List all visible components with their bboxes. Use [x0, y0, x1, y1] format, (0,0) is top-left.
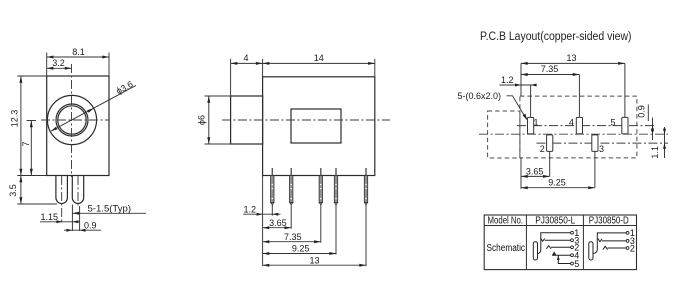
svg-text:13: 13: [566, 53, 576, 63]
schematic L: terminal 5 circle: [571, 262, 574, 265]
schematic D: contact caret mark: [603, 246, 608, 249]
dimension 3.65 (side view) line: [263, 227, 292, 229]
side view horizontal centerline: [222, 119, 390, 121]
side view pin 4: [334, 168, 337, 205]
svg-text:4: 4: [569, 118, 574, 128]
extension line barrel left top: [230, 59, 232, 96]
schematic L: terminal 2 circle: [571, 246, 574, 249]
pin P-left (front view, 1.5 wide tab): [56, 176, 68, 204]
schematic L: sleeve wire to terminal 1: [538, 233, 571, 254]
pad 3: [592, 135, 598, 152]
dimension 13 (PCB) line: [521, 62, 625, 64]
dimension 0.9 underline: [647, 105, 649, 122]
extension line body right top: [374, 59, 376, 77]
dimension 7.35 (PCB) line: [521, 74, 579, 76]
dimension 9.25 (PCB) line: [521, 187, 595, 189]
schematic L: tip triangle: [552, 251, 556, 255]
side view pin 5: [364, 168, 367, 205]
svg-text:2: 2: [630, 243, 635, 253]
dia 3.6 leader line: [51, 85, 136, 131]
jack barrel outer circle: [47, 95, 96, 144]
svg-text:ϕ6: ϕ6: [197, 115, 207, 125]
dimension 0.9 line: [64, 229, 101, 231]
schematic D: sleeve symbol: [589, 242, 593, 260]
svg-text:1: 1: [534, 118, 539, 128]
pin edge extension line C: [79, 206, 81, 231]
pin4 center extension: [335, 205, 337, 255]
side view pin 1: [271, 168, 274, 205]
svg-text:14: 14: [314, 53, 324, 63]
svg-text:12.3: 12.3: [10, 110, 20, 128]
pin P-left centerline: [61, 176, 63, 222]
svg-text:3.65: 3.65: [526, 166, 544, 176]
schematic L: terminal 5 wire: [558, 255, 570, 263]
svg-text:1.1: 1.1: [650, 146, 660, 159]
svg-text:0.9: 0.9: [84, 221, 97, 231]
dimension dia6 line: [208, 96, 210, 144]
svg-text:3.2: 3.2: [52, 58, 65, 68]
svg-text:3.5: 3.5: [8, 184, 18, 197]
pin1 center extension: [271, 205, 273, 216]
PCB lower row centerline: [537, 142, 669, 144]
dimension 0.9 (PCB) line: [652, 118, 654, 141]
schematic L: terminal 2 wire: [551, 246, 571, 248]
svg-text:2: 2: [540, 144, 545, 154]
PCB upper row centerline: [517, 125, 656, 127]
extension line body left top: [262, 59, 264, 77]
schematic D: terminal 3 wire: [602, 240, 626, 242]
svg-text:5: 5: [574, 259, 579, 269]
svg-text:Model No.: Model No.: [488, 216, 524, 227]
pad5 extension up: [624, 63, 626, 117]
schematic L: terminal 5 arrow: [557, 256, 560, 260]
extension line barrel bottom: [205, 143, 231, 145]
svg-text:5-(0.6x2.0): 5-(0.6x2.0): [458, 91, 502, 101]
dimension 7 top tick: [27, 120, 37, 122]
dimension 1.15 line: [40, 221, 80, 223]
dimension 1.2 (PCB) line: [500, 84, 537, 86]
extension line at body top left: [17, 75, 46, 77]
schematic D: terminal 2 circle: [626, 247, 629, 250]
horizontal centerline of front view: [41, 119, 109, 121]
svg-text:9.25: 9.25: [292, 244, 310, 254]
label 5-(0.6x2.0) leader: [507, 96, 527, 119]
pin P-right (front view): [72, 176, 83, 204]
front view body outline: [47, 76, 109, 176]
dimension 1.1 (PCB) line: [664, 127, 666, 158]
pad1 extension up: [530, 85, 532, 117]
side view inner rectangle: [291, 109, 341, 143]
schematic D: sleeve wire to terminal 1: [593, 233, 626, 254]
extension line left of 8.1: [46, 53, 48, 77]
extension line at pin bottom: [17, 203, 57, 205]
pad2 extension down: [549, 151, 551, 176]
svg-text:8.1: 8.1: [72, 47, 85, 57]
pad 5: [622, 117, 628, 133]
svg-text:7.35: 7.35: [541, 64, 559, 74]
pad 4: [576, 117, 582, 133]
vertical centerline of front view: [71, 64, 73, 177]
schematic L: terminal 3 wire: [545, 239, 571, 241]
table column divider 1: [525, 215, 527, 270]
dimension 1.2 (side view) line: [243, 213, 280, 215]
side view barrel: [231, 96, 263, 144]
svg-text:5-1.5(Typ): 5-1.5(Typ): [88, 203, 132, 213]
dimension 4 line: [231, 62, 263, 64]
pin2 center extension: [290, 205, 292, 229]
svg-text:4: 4: [243, 53, 248, 63]
svg-text:3.65: 3.65: [269, 218, 287, 228]
dimension 3.5 line: [20, 176, 22, 205]
schematic L: terminal 4 wire: [552, 254, 571, 256]
svg-text:Schematic: Schematic: [487, 243, 526, 254]
pin5 center extension: [365, 205, 367, 266]
side view pin 3: [319, 168, 322, 205]
PCB dashed barrel outline: [488, 111, 520, 158]
pad3 extension down: [594, 151, 596, 187]
dimension 8.1 line: [47, 56, 109, 58]
pad4 extension up: [578, 75, 580, 118]
schematic D: contact v mark: [598, 239, 602, 242]
svg-text:9.25: 9.25: [548, 178, 566, 188]
pin P-right centerline: [77, 176, 79, 206]
dimension 7 line: [30, 121, 32, 176]
schematic D: terminal 3 circle: [626, 240, 629, 243]
schematic L: contact caret mark: [546, 246, 551, 249]
svg-text:13: 13: [309, 255, 319, 265]
left reference extension down: [520, 158, 522, 189]
svg-text:0.9: 0.9: [636, 105, 646, 118]
schematic D: terminal 2 wire: [608, 247, 627, 249]
table header divider: [484, 225, 636, 227]
dimension 3.65 (PCB) line: [521, 175, 550, 177]
dimension 3.2 line: [47, 67, 72, 69]
dimension 7.35 (side view) line: [263, 241, 321, 243]
svg-text:5: 5: [611, 118, 616, 128]
pad 1: [528, 117, 534, 133]
schematic L: contact v mark: [541, 238, 545, 241]
left reference extension up: [520, 63, 522, 96]
pin edge extension line B: [71, 205, 73, 232]
dimension 14 line: [263, 62, 375, 64]
extension line at body bottom left: [17, 175, 46, 177]
svg-text:PJ30850-D: PJ30850-D: [589, 216, 629, 227]
svg-text:P.C.B Layout(copper-sided view: P.C.B Layout(copper-sided view): [480, 31, 632, 43]
svg-text:1.2: 1.2: [244, 204, 257, 214]
table column divider 2: [582, 215, 584, 270]
PCB dashed body outline: [520, 96, 637, 158]
PCB axis centerline: [479, 133, 668, 135]
svg-text:1.2: 1.2: [501, 75, 514, 85]
pin3 center extension: [320, 205, 322, 243]
svg-text:3: 3: [599, 144, 604, 154]
dimension 13 (side view) line: [263, 264, 366, 266]
svg-text:PJ30850-L: PJ30850-L: [535, 216, 575, 227]
extension line right of 8.1: [108, 53, 110, 77]
side view pin 2: [290, 168, 293, 205]
dimension 9.25 (side view) line: [263, 253, 336, 255]
table outer border: [484, 215, 636, 270]
schematic L: sleeve symbol: [533, 242, 537, 260]
side view body outline: [263, 77, 375, 176]
schematic L: terminal 4 circle: [571, 254, 574, 257]
schematic L: terminal 3 circle: [571, 239, 574, 242]
jack ring circle outer: [56, 104, 88, 136]
schematic D: terminal 1 circle: [626, 232, 629, 235]
svg-text:7: 7: [21, 141, 31, 146]
pad 2: [547, 135, 553, 152]
schematic L: terminal 1 circle: [571, 231, 574, 234]
jack ring circle inner (dia 3.6 hole): [58, 106, 86, 134]
body left edge extension down: [262, 176, 264, 267]
extension line barrel top: [205, 95, 231, 97]
svg-text:7.35: 7.35: [284, 232, 302, 242]
dimension 12.3 line: [20, 76, 22, 176]
svg-text:1.15: 1.15: [41, 212, 59, 222]
label 5-1.5(Typ) leader: [72, 212, 146, 214]
